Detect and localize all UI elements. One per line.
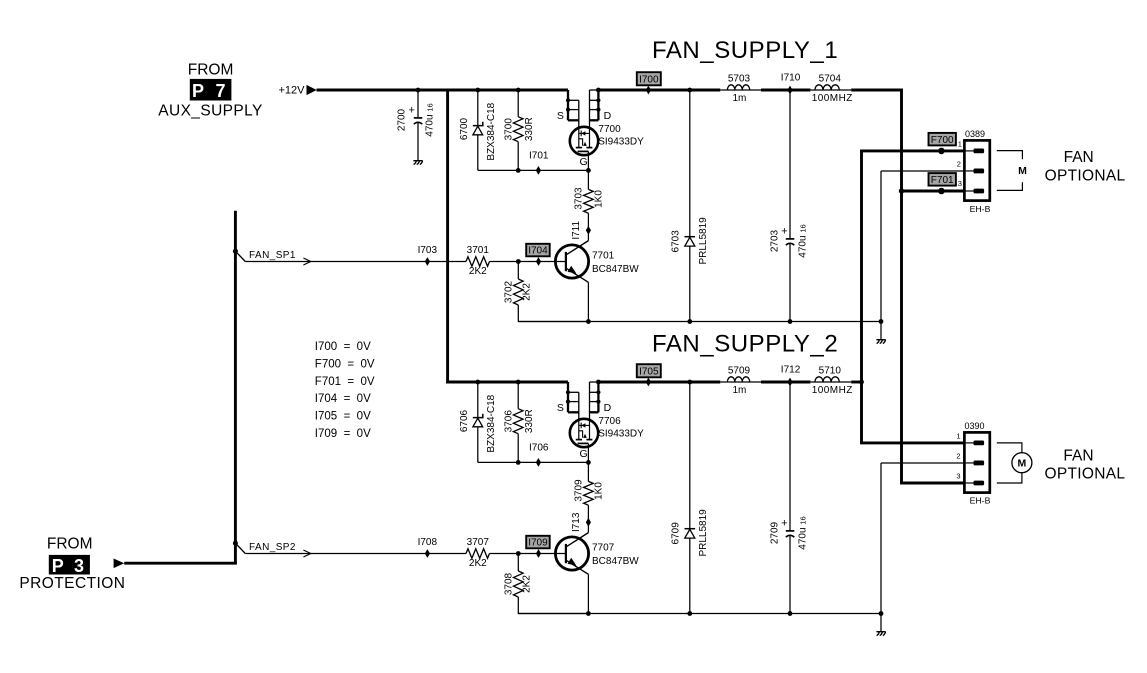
- svg-text:I700 = 0V: I700 = 0V: [315, 341, 371, 353]
- svg-text:1: 1: [958, 139, 962, 148]
- diode 6703 PRLL5819: [689, 90, 691, 322]
- svg-text:I700: I700: [639, 75, 659, 86]
- wire source pins comb: [567, 382, 569, 412]
- connector 0390 EH-B: [964, 432, 989, 492]
- svg-text:2700: 2700: [396, 108, 407, 131]
- svg-text:I710: I710: [781, 73, 801, 84]
- transistor 7701 BC847BW: [555, 245, 588, 278]
- svg-text:I705: I705: [639, 367, 659, 378]
- svg-text:+12V: +12V: [279, 85, 306, 97]
- svg-text:PRLL5819: PRLL5819: [698, 509, 709, 557]
- svg-text:D: D: [604, 110, 612, 122]
- svg-text:3709: 3709: [573, 479, 584, 502]
- svg-text:1K0: 1K0: [594, 482, 605, 500]
- diode 6709 PRLL5819: [689, 382, 691, 614]
- capacitor 2703 470u 16V: [789, 90, 791, 239]
- resistor 3708 2K2: [517, 554, 519, 572]
- svg-text:FAN_SUPPLY_1: FAN_SUPPLY_1: [652, 37, 838, 64]
- svg-text:470u 16: 470u 16: [797, 224, 808, 257]
- wire ground net: [518, 613, 881, 615]
- svg-text:I704 = 0V: I704 = 0V: [315, 393, 371, 405]
- svg-text:6706: 6706: [459, 409, 470, 432]
- svg-text:2703: 2703: [770, 229, 781, 252]
- svg-text:3700: 3700: [504, 118, 515, 141]
- svg-text:2K2: 2K2: [521, 283, 532, 301]
- node I700: [637, 72, 661, 85]
- wire rail2 between 5709 and 5710: [761, 381, 810, 384]
- node I712: [787, 378, 792, 387]
- wire FAN_SUPPLY_1 feed (V2): [900, 89, 903, 483]
- svg-text:+: +: [408, 105, 414, 117]
- mosfet 7706 SI9433DY: [570, 419, 598, 447]
- svg-text:S: S: [557, 402, 564, 414]
- svg-text:PROTECTION: PROTECTION: [19, 575, 125, 592]
- node I708: [425, 549, 430, 558]
- svg-text:2K2: 2K2: [521, 575, 532, 593]
- wire P3 to bus: [124, 562, 237, 565]
- capacitor 2709 470u 16V: [789, 382, 791, 531]
- svg-text:PRLL5819: PRLL5819: [698, 217, 709, 265]
- svg-text:7701: 7701: [592, 251, 615, 262]
- wire emitter to ground: [587, 282, 589, 321]
- node I711: [586, 226, 591, 235]
- svg-text:G: G: [580, 156, 588, 168]
- wire rail between 5703 and 5704: [761, 89, 810, 92]
- resistor 3703 1K0: [584, 189, 594, 213]
- svg-text:I706: I706: [529, 443, 549, 454]
- node I704: [526, 244, 550, 256]
- ground: [880, 614, 882, 632]
- node I710: [787, 86, 792, 95]
- motor M (bottom fan): [997, 443, 1022, 453]
- svg-text:OPTIONAL: OPTIONAL: [1045, 465, 1126, 482]
- svg-text:F701: F701: [931, 175, 954, 186]
- svg-text:I709: I709: [528, 538, 548, 549]
- svg-text:I708: I708: [418, 537, 438, 548]
- node F701: [929, 173, 956, 186]
- node I709: [526, 536, 550, 549]
- svg-text:3706: 3706: [504, 410, 515, 433]
- svg-text:+: +: [781, 518, 787, 530]
- wire connector 0389 pin2: [881, 170, 964, 172]
- wire rail2 thin through 5710: [810, 381, 851, 383]
- svg-text:I704: I704: [528, 246, 548, 257]
- svg-text:FAN_SP2: FAN_SP2: [249, 542, 296, 553]
- svg-text:3708: 3708: [504, 572, 515, 595]
- svg-text:I711: I711: [571, 221, 582, 240]
- svg-text:I703: I703: [418, 245, 438, 256]
- svg-text:BC847BW: BC847BW: [592, 556, 639, 567]
- svg-text:5709: 5709: [728, 366, 751, 377]
- svg-text:M: M: [1018, 165, 1027, 177]
- svg-text:0389: 0389: [965, 129, 985, 139]
- svg-text:330R: 330R: [524, 117, 535, 141]
- svg-text:EH-B: EH-B: [970, 495, 991, 505]
- svg-text:1K0: 1K0: [594, 190, 605, 208]
- svg-text:F701 = 0V: F701 = 0V: [315, 376, 375, 388]
- svg-text:I713: I713: [571, 512, 582, 532]
- resistor 3706 330R: [517, 382, 519, 409]
- wire connector 0389 pin1: [860, 149, 964, 152]
- svg-text:7700: 7700: [598, 124, 621, 135]
- wire drain pins comb: [597, 90, 599, 120]
- inductor 5703 1m: [727, 85, 749, 90]
- wire connector 0390 pin3: [900, 482, 964, 485]
- wire rail2 thin through 5709: [720, 381, 761, 383]
- mosfet 7700 SI9433DY: [570, 127, 598, 155]
- wire node I706: [478, 461, 589, 463]
- svg-text:100MHZ: 100MHZ: [812, 93, 853, 104]
- svg-text:FAN: FAN: [1064, 149, 1094, 166]
- bead 5704 100MHZ: [815, 85, 839, 90]
- node I706: [536, 458, 541, 467]
- connector tag P7: [190, 79, 232, 101]
- node I703: [425, 257, 430, 266]
- svg-text:1m: 1m: [732, 385, 746, 396]
- resistor 3709 1K0: [584, 481, 594, 505]
- arrow from P3: [114, 559, 125, 569]
- svg-text:SI9433DY: SI9433DY: [598, 428, 644, 439]
- svg-text:3: 3: [74, 556, 84, 576]
- arrow +12V input: [307, 85, 317, 95]
- svg-text:FAN_SP1: FAN_SP1: [249, 250, 296, 261]
- svg-text:+: +: [781, 226, 787, 238]
- svg-text:S: S: [557, 110, 564, 122]
- svg-text:D: D: [604, 402, 612, 414]
- resistor 3700 330R: [517, 90, 519, 117]
- svg-text:I705 = 0V: I705 = 0V: [315, 411, 371, 423]
- resistor 3707 2K2: [466, 549, 490, 559]
- inductor 5709 1m: [727, 377, 749, 382]
- wire FAN_SUPPLY_2 rail: [446, 381, 568, 384]
- wire gate to node: [587, 443, 589, 481]
- svg-text:SI9433DY: SI9433DY: [598, 136, 644, 147]
- svg-text:BC847BW: BC847BW: [592, 264, 639, 275]
- svg-text:BZX384-C18: BZX384-C18: [486, 102, 497, 160]
- wire left protection bus: [234, 211, 237, 564]
- svg-text:6703: 6703: [670, 230, 681, 253]
- motor bracket (top fan): [997, 151, 1023, 160]
- svg-text:EH-B: EH-B: [970, 204, 991, 214]
- svg-text:P: P: [192, 81, 204, 101]
- svg-text:100MHZ: 100MHZ: [812, 385, 853, 396]
- zener 6706 BZX384-C18: [477, 382, 479, 462]
- connector tag P3: [49, 555, 90, 575]
- node I713: [586, 518, 591, 527]
- wire +12V drop bus: [446, 90, 449, 383]
- wire node I701: [478, 169, 589, 171]
- svg-text:I701: I701: [529, 151, 549, 162]
- wire +12V rail segment 2: [598, 89, 720, 92]
- svg-text:OPTIONAL: OPTIONAL: [1045, 167, 1126, 184]
- bead 5710 100MHZ: [815, 377, 839, 382]
- svg-text:330R: 330R: [524, 409, 535, 433]
- svg-text:5710: 5710: [819, 366, 842, 377]
- svg-text:I712: I712: [781, 365, 801, 376]
- ground: [880, 322, 882, 340]
- resistor 3702 2K2: [517, 262, 519, 280]
- svg-text:F700: F700: [931, 135, 954, 146]
- wire emitter to ground: [587, 574, 589, 613]
- transistor 7707 BC847BW: [555, 537, 588, 570]
- svg-text:3703: 3703: [573, 187, 584, 210]
- ground for 2700: [413, 160, 422, 162]
- svg-text:FAN: FAN: [1063, 448, 1093, 465]
- svg-text:3: 3: [956, 472, 960, 481]
- zener 6700 BZX384-C18: [477, 90, 479, 170]
- wire connector 0390 pin1: [860, 441, 964, 444]
- svg-text:5703: 5703: [728, 74, 751, 85]
- svg-text:M: M: [1018, 458, 1027, 470]
- svg-text:FAN_SUPPLY_2: FAN_SUPPLY_2: [652, 331, 838, 358]
- svg-text:2: 2: [957, 160, 961, 169]
- capacitor 2700 470u 16V: [417, 90, 419, 118]
- svg-text:F700 = 0V: F700 = 0V: [315, 358, 375, 370]
- svg-text:6700: 6700: [459, 117, 470, 140]
- svg-text:2709: 2709: [770, 521, 781, 544]
- svg-text:1m: 1m: [732, 93, 746, 104]
- svg-text:3701: 3701: [467, 245, 490, 256]
- wire +12V rail (top): [317, 89, 569, 92]
- svg-text:3707: 3707: [467, 537, 490, 548]
- svg-text:I709 = 0V: I709 = 0V: [315, 428, 371, 440]
- wire FAN_SP2: [233, 541, 238, 546]
- svg-text:470u 16: 470u 16: [424, 103, 435, 136]
- svg-text:3: 3: [958, 179, 962, 188]
- node I705: [637, 364, 661, 377]
- wire source pins comb: [567, 90, 569, 120]
- svg-text:1: 1: [956, 432, 960, 441]
- wire gate to node: [587, 151, 589, 189]
- svg-text:5704: 5704: [819, 74, 842, 85]
- wire rail2 to V1: [851, 381, 861, 384]
- svg-text:P: P: [52, 556, 64, 576]
- wire rail2 segment 2: [598, 381, 720, 384]
- wire connector 0389 pin3: [902, 190, 965, 193]
- wire drain pins comb: [597, 382, 599, 412]
- svg-text:AUX_SUPPLY: AUX_SUPPLY: [158, 102, 263, 119]
- node I701: [536, 166, 541, 175]
- resistor 3701 2K2: [466, 257, 490, 267]
- svg-text:7706: 7706: [598, 416, 621, 427]
- svg-text:0390: 0390: [965, 421, 985, 431]
- wire rail to right corner: [851, 89, 901, 92]
- node F700: [929, 133, 956, 146]
- wire ground net: [518, 321, 881, 323]
- svg-text:G: G: [580, 448, 588, 460]
- svg-text:FROM: FROM: [47, 536, 93, 553]
- svg-text:2: 2: [956, 452, 960, 461]
- wire rail thin through 5703: [720, 89, 761, 91]
- svg-text:7: 7: [216, 81, 226, 101]
- svg-text:2K2: 2K2: [469, 558, 487, 569]
- wire rail thin through 5704: [810, 89, 851, 91]
- svg-text:2K2: 2K2: [469, 266, 487, 277]
- svg-text:470u 16: 470u 16: [797, 516, 808, 549]
- svg-text:6709: 6709: [670, 522, 681, 545]
- svg-text:3702: 3702: [504, 280, 515, 303]
- svg-text:7707: 7707: [592, 543, 615, 554]
- wire FAN_SUPPLY_2 feed (V1): [860, 151, 863, 443]
- svg-text:FROM: FROM: [188, 62, 234, 79]
- wire FAN_SP1: [233, 249, 238, 254]
- svg-text:BZX384-C18: BZX384-C18: [486, 394, 497, 452]
- connector 0389 EH-B: [964, 140, 989, 200]
- wire connector 0390 pin2: [881, 462, 964, 464]
